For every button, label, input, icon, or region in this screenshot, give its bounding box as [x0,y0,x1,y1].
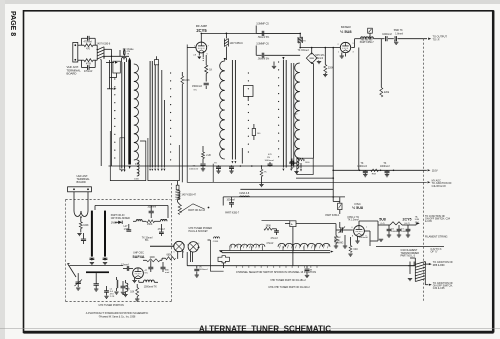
svg-text:1407 K330-6: 1407 K330-6 [97,43,111,46]
svg-text:TK 15mmf: TK 15mmf [142,237,153,239]
shield box S3 lower [212,164,214,183]
svg-text:½ 5U8: ½ 5U8 [352,206,363,210]
transformer T2 leads [408,265,415,267]
capacitor C17 [394,36,396,41]
wire y178 link [296,177,333,179]
svg-text:100K: 100K [83,225,89,227]
svg-text:1000mmf: 1000mmf [380,166,390,168]
UHF box dashed left [65,200,67,302]
svg-text:5%: 5% [194,90,197,92]
full-width rule [0,327,500,329]
svg-text:TUNING: TUNING [334,242,343,245]
svg-text:mmf: mmf [165,272,170,274]
resistor R9 ground [324,73,326,74]
coil L21 [117,280,118,288]
wire B+ 110V rail right [333,169,427,171]
svg-text:FILAMENT STRING: FILAMENT STRING [425,236,448,239]
switch S1A inner frame [120,138,125,170]
UHF interior wires [95,205,168,207]
wire osc feed vertical [332,48,334,202]
socket J1 [188,242,198,252]
tube V3 ground [134,278,136,280]
svg-text:5: 5 [174,252,175,254]
coil L10 choke on B+ [299,33,301,37]
svg-text:1000mmf: 1000mmf [357,166,367,168]
resistor R15 input [79,222,82,229]
coil L12 IF primary [361,37,374,39]
switch S1D contact dots [278,61,279,62]
svg-text:TK: TK [361,163,364,165]
svg-text:PLUG & SOCKET: PLUG & SOCKET [189,230,209,233]
switch S1A wafer bars [121,62,123,169]
svg-text:470mmf: 470mmf [84,71,93,73]
svg-text:A PHOTOFACT STANDARD NOTATI: A PHOTOFACT STANDARD NOTATION SCHEMATIC [86,311,149,315]
tube V2B cathode ground [357,237,359,241]
capacitor C9 blocking [291,161,293,166]
transformer T1 ant coil [97,47,104,50]
plug pin stubs [177,251,179,259]
coil L1 input [122,57,127,59]
svg-text:150K: 150K [147,224,153,226]
filament V1 heater [396,222,402,225]
wire osc B+ drop [240,188,333,190]
filament caps [387,228,392,230]
bypass caps on rail 2 [216,166,221,168]
svg-text:PART NO.S2-12: PART NO.S2-12 [188,209,205,212]
UHF twin lead [73,192,75,211]
wire y197 [223,196,345,198]
trimmer box C13 [244,86,254,97]
resistor R18 100K [147,259,161,262]
svg-text:.56mmf 5%: .56mmf 5% [258,59,270,61]
UHF box dashed bottom [66,301,172,303]
capacitor C30 [121,285,126,287]
small box A-C [290,221,296,227]
capacitor C20 [81,238,86,240]
coil L2 tail [137,160,139,176]
coil chain stubs [229,246,231,250]
VHF ant terminal board [73,43,78,63]
svg-text:100K: 100K [150,257,156,259]
svg-text:2.2K: 2.2K [126,289,131,291]
tube V2A mixer [340,42,350,52]
junction dots rail [240,165,242,167]
svg-text:3.3MMF C6: 3.3MMF C6 [256,43,269,46]
dashed shield [422,39,424,302]
filament left leg [377,225,379,241]
svg-text:PAGE 8: PAGE 8 [9,11,16,36]
resistor R23 24K [349,246,352,253]
svg-text:1000mmf: 1000mmf [382,34,392,36]
capacitor C1 470mmf [78,44,84,46]
transformer T2 out2 [424,282,426,285]
svg-text:TK: TK [383,163,386,165]
coil L5 plate choke [225,33,227,38]
switch S1C wafer bars [231,60,233,160]
capacitor C32 fine tuning [340,227,342,232]
capacitor C11 ground [318,60,320,63]
svg-text:.56mmf 5%: .56mmf 5% [258,37,270,39]
svg-text:UHF-VHF TUNER PART NO 94-220-2: UHF-VHF TUNER PART NO 94-220-2 [268,286,310,289]
switch S1B contact dots [170,72,171,73]
transformer T2 filament [415,262,425,265]
switch S1B wafer bars [154,65,156,168]
svg-text:2: 2 [184,245,185,247]
resistor R1 470 [84,44,93,47]
svg-text:5AF4A: 5AF4A [132,255,144,259]
svg-text:5%: 5% [145,240,148,242]
oscillator coil chain [230,244,265,247]
tube V2A ground [341,53,343,56]
svg-text:NPO 2%: NPO 2% [315,55,324,57]
selector drive rails [219,251,222,253]
ground L9 box [300,163,302,169]
resistor R19 680K [166,257,176,260]
svg-text:3.3MMF C5: 3.3MMF C5 [256,23,269,26]
switch S1B top contact [154,60,158,65]
svg-text:BOARD: BOARD [67,71,77,75]
switch shaft linkage [181,204,205,212]
capacitor C7 1500mmf [205,74,207,82]
svg-text:2CY5: 2CY5 [403,218,412,222]
svg-text:C4K: C4K [353,249,358,251]
svg-text:1500mmf: 1500mmf [192,85,202,88]
svg-text:TO I.F.: TO I.F. [433,38,441,41]
osc tube plate wires [358,221,360,226]
coil L6 interstage [220,61,225,159]
shield box S1 lower [110,131,146,181]
resistor R13 osc [178,205,181,215]
svg-text:100mmf: 100mmf [147,206,156,209]
arrow wire y62 [106,62,114,64]
capacitor C29 [94,283,99,285]
svg-text:560K TK: 560K TK [394,30,403,32]
arrow into switch [107,88,113,90]
svg-text:4: 4 [198,243,199,245]
resistor below rail 261 [261,166,263,169]
svg-text:UHF TUNER PORTION: UHF TUNER PORTION [99,304,125,307]
wire V1 plate to B+ [200,33,202,42]
RF amp shield box [187,45,427,183]
capacitor C6 [261,53,263,58]
svg-text:47mmf: 47mmf [271,238,278,240]
switch S1B left bars [149,61,151,168]
wire mixer grid drop [312,64,314,159]
UHF box dashed right [171,183,173,302]
filament wire [378,224,390,226]
wire mixer grid [300,47,340,49]
svg-text:1000mmf: 1000mmf [359,237,369,239]
transformer T2 out1 [424,262,426,265]
switch S1D stator lines [290,63,292,168]
capacitor C26 47mmf [148,266,153,268]
svg-text:3: 3 [183,252,184,254]
svg-text:CRYSTAL MIXER: CRYSTAL MIXER [111,217,130,220]
resistor R20 10K [136,288,139,297]
resistor R15 ground [80,229,82,233]
svg-text:47mmf: 47mmf [266,243,273,245]
svg-text:470mmf: 470mmf [84,42,93,44]
coil L19 [161,219,168,221]
coil L2 RF coil [134,64,139,160]
wire C5 drop [255,26,257,34]
filament bus caps [196,266,198,269]
resistor R11 220k [380,88,383,98]
svg-text:1000: 1000 [134,178,140,180]
svg-text:C26A 3-8: C26A 3-8 [239,192,250,195]
svg-text:1000mmf TK: 1000mmf TK [144,286,158,288]
capacitor C11 silver mica diamond [306,53,317,64]
svg-text:C34 & C35: C34 & C35 [433,287,445,290]
svg-text:1407 K350-47: 1407 K350-47 [182,195,197,197]
svg-text:100mmf: 100mmf [227,200,236,202]
coil L20 osc [144,280,155,282]
capacitor C2 470mmf [81,60,83,67]
svg-text:10K: 10K [130,292,135,294]
UHF tuning bar 1 [91,211,93,257]
svg-text:(L4,7): (L4,7) [404,223,410,225]
UHF ant terminal board [68,187,92,192]
IF output arrow [428,38,431,40]
svg-text:5%: 5% [145,273,148,275]
svg-text:©Howard W. Sams & Co., Inc. 19: ©Howard W. Sams & Co., Inc. 1958 [99,316,136,319]
trimmer C15B box [368,28,373,33]
svg-text:K350-1 7%: K350-1 7% [348,217,359,219]
svg-text:2CY5: 2CY5 [196,28,207,33]
filament 6.3V wire [376,246,444,248]
switch S1D wafer bars [282,60,284,168]
wire socket to filament bus [187,265,414,267]
grounds fine tuning [335,244,337,246]
plug feed wire [150,245,174,247]
resistor R6 2.2K [202,146,204,152]
capacitor C27 680mmf [161,266,166,268]
thick bus bar [86,271,109,273]
coil L18 [136,220,142,222]
svg-text:680K: 680K [167,254,173,256]
resistor R2 470K [84,59,93,62]
svg-text:& C35: & C35 [425,220,432,223]
svg-text:PART K350-1: PART K350-1 [325,214,340,217]
svg-text:1000mmf: 1000mmf [199,269,208,271]
tube V3 5AF4A [133,268,144,279]
svg-text:OF “U”: OF “U” [431,251,439,254]
svg-text:5U8: 5U8 [379,218,386,222]
svg-text:C26K: C26K [213,241,219,243]
diag wire [68,264,77,278]
svg-text:TK 1.5mmf: TK 1.5mmf [348,220,360,222]
wire mixer plate [351,47,354,49]
svg-text:PART K350-7: PART K350-7 [225,212,240,215]
coil L9 osc coil [295,63,300,158]
switch S1A contact dots [114,78,115,79]
svg-text:1000mmf: 1000mmf [189,168,199,170]
tube V2B osc [354,226,365,237]
capacitor C3 grid [119,50,121,56]
resistor R22 [335,236,338,244]
wire diamond down [311,62,313,64]
wire y220 [262,220,290,222]
filament V2 heater [390,222,396,225]
svg-text:1.8mmf: 1.8mmf [395,33,403,35]
switch rotor bar S1A [128,61,131,165]
selector position dots [236,266,237,267]
svg-text:5UB: 5UB [415,219,420,221]
tube V1 grid stub [187,47,196,49]
ground col4 grid [273,62,275,66]
svg-text:PART NO.L-3: PART NO.L-3 [401,255,416,258]
resistor R16 [147,220,155,223]
wire mixer cathode drop [345,53,347,56]
svg-text:1: 1 [187,245,188,247]
small box K350-1 [338,203,342,209]
tube V1 cathode ground [198,52,200,56]
svg-text:110V: 110V [432,169,438,173]
svg-text:1407 K350-6: 1407 K350-6 [230,43,244,45]
ant shield box [113,61,120,73]
bus bypass cap [306,266,308,269]
svg-text:1000mmf: 1000mmf [265,160,275,162]
svg-text:220k: 220k [384,91,390,94]
coil L9 base box [297,158,313,174]
svg-text:UHF OSC: UHF OSC [133,252,144,255]
coil L26 [214,237,220,239]
variable cap C28 [76,281,81,283]
svg-text:ALTERNATE TUNER SCHEMATIC: ALTERNATE TUNER SCHEMATIC [199,324,331,333]
capacitor on rail 270 [268,163,273,165]
resistor R20 ground [136,297,138,299]
svg-text:½ 5U8: ½ 5U8 [340,29,352,34]
resistor R5 10K [205,65,208,74]
svg-text:TK Chmed: TK Chmed [298,50,310,52]
svg-text:1.5mmf: 1.5mmf [315,58,323,60]
svg-text:CHANNEL SELECTOR SWITCH SHOWN: CHANNEL SELECTOR SWITCH SHOWN IN CHANNEL… [236,270,316,274]
plug P1 [174,241,184,251]
svg-text:2.2K: 2.2K [110,296,115,298]
capacitor C5 [261,31,263,36]
svg-text:2.2K: 2.2K [206,155,211,157]
capacitor C8 TK 1000mmf [200,163,205,165]
tube V1 2CY5 [196,42,207,53]
svg-text:1000mmf: 1000mmf [401,231,410,233]
svg-text:VHF TUNER PART NO 94-181-2: VHF TUNER PART NO 94-181-2 [270,279,306,282]
UHF tuning bar 2 [104,211,106,257]
coil L22 choke [126,283,128,292]
UHF box dashed top [66,199,171,201]
shield box S2 lower [148,138,179,181]
resistor R9 220K [324,65,327,74]
selector left bracket [210,240,223,271]
wire B+ 110V rail left [109,165,334,167]
svg-text:PART K350-7: PART K350-7 [360,41,375,44]
resistor R7 trimmer [252,129,255,136]
switch S1C contact dots [248,72,249,73]
svg-text:RF Choke: RF Choke [123,48,134,51]
wire ant to switch [104,48,112,50]
selector shaft symbol [218,256,229,263]
switch S1B stator lines [161,70,163,168]
capacitor C17 ground [394,41,398,43]
resistor R4 100K [181,76,184,84]
svg-text:C4L R8 & C8: C4L R8 & C8 [432,185,447,188]
svg-text:1K: 1K [209,70,212,72]
svg-text:BOARD: BOARD [77,180,86,184]
svg-text:1N: 1N [267,157,270,159]
svg-text:(L4): (L4) [381,223,385,225]
coil L14 osc choke [177,181,179,186]
svg-text:R88 & R90: R88 & R90 [433,264,445,267]
